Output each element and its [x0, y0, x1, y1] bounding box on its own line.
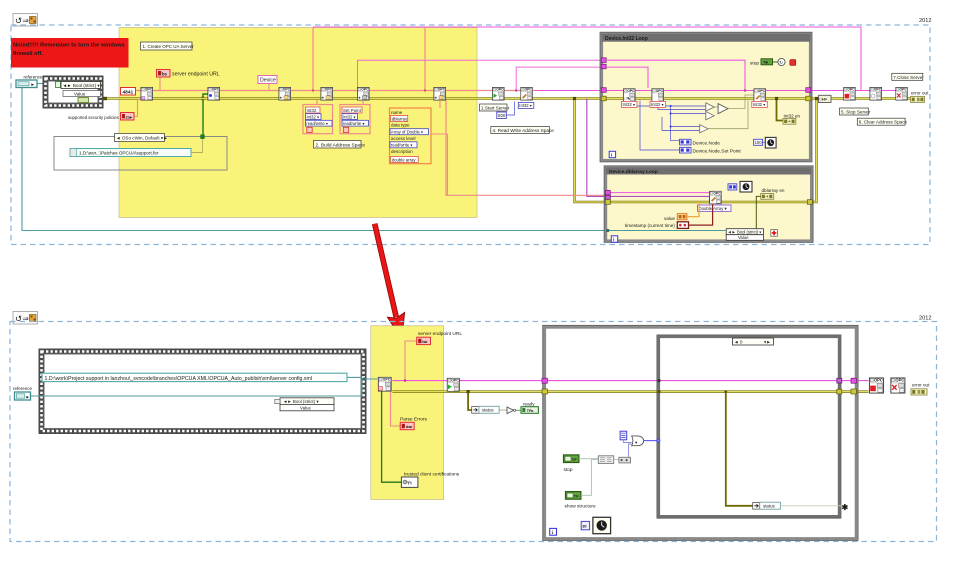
node R3 clear [896, 87, 908, 100]
note box red [11, 38, 129, 68]
bool strict property loop2 [726, 229, 763, 235]
loop i bottom [550, 528, 557, 535]
svg-text:dblarray: dblarray [392, 116, 408, 121]
svg-text:□H×: □H× [820, 97, 828, 102]
dropdown Int32 under U8 [518, 102, 534, 108]
svg-text:value: value [664, 216, 675, 221]
node R2 close [870, 87, 882, 100]
svg-text:i: i [552, 530, 553, 536]
label 7.Close Server [892, 73, 923, 80]
cluster C2 Set Point [340, 105, 370, 134]
svg-text:2012: 2012 [919, 316, 931, 322]
svg-text:Value: Value [300, 406, 311, 411]
svg-text:stop: stop [564, 467, 573, 473]
loop1 iteration i [609, 151, 615, 157]
cluster C1 int32 [303, 105, 333, 134]
status indicator inner [753, 503, 760, 510]
node M1 write dbl [710, 191, 722, 204]
constant 500 [497, 112, 507, 119]
svg-text:TF: TF [572, 457, 577, 462]
node RB2 close bottom [891, 378, 905, 393]
metronome bottom [581, 521, 589, 529]
svg-text:status: status [763, 504, 776, 509]
svg-text:30: 30 [582, 524, 587, 529]
svg-text:description: description [391, 149, 413, 154]
wire magenta top run [313, 27, 861, 91]
loop2 wires magenta+purple [607, 192, 710, 194]
yellow region top [119, 28, 477, 218]
gray box (config, bottom-left of yellow) [54, 137, 227, 171]
svg-text:reference: reference [13, 386, 33, 391]
node L1 [623, 89, 635, 102]
node B2 create server bottom [447, 378, 459, 391]
wire stop to circle [773, 61, 778, 63]
svg-text:access level: access level [391, 136, 416, 141]
svg-text:◄► Bool (strict) ▾: ◄► Bool (strict) ▾ [728, 230, 762, 235]
svg-text:i: i [611, 153, 612, 158]
frame top diagram dashed border [11, 25, 930, 245]
svg-text:1.D:\wor...\Patches OPCUA\supp: 1.D:\wor...\Patches OPCUA\support.fer [79, 151, 159, 156]
svg-text:server endpoint URL: server endpoint URL [418, 331, 462, 337]
stop control bottom [564, 455, 579, 463]
inner loop terminals [657, 379, 660, 382]
wire salmon cluster risers [317, 100, 440, 108]
loop2 olive [607, 201, 809, 204]
svg-text:Int32 ▾: Int32 ▾ [519, 103, 532, 108]
svg-text:Int32: Int32 [307, 108, 317, 113]
svg-text:ready: ready [523, 401, 535, 406]
junction dots olive main [573, 97, 576, 100]
svg-text:timestamp (current time): timestamp (current time) [625, 223, 675, 228]
wire teal bottom main [29, 379, 378, 396]
svg-text:Value: Value [74, 91, 86, 96]
not gate [499, 409, 507, 411]
svg-text:dblarray en: dblarray en [762, 188, 785, 193]
svg-text:supported security policies: supported security policies [68, 115, 119, 120]
stop sign red [790, 60, 796, 66]
path box server config [42, 373, 347, 381]
yellow region bottom [371, 326, 444, 500]
node R1 stop server [844, 87, 856, 100]
wire orange value->node [687, 203, 699, 217]
svg-text:reference: reference [24, 74, 44, 79]
wire pink main left (salmon) [135, 90, 535, 92]
comparator T1 [706, 103, 714, 111]
svg-text:500: 500 [498, 113, 506, 118]
svg-text:Int32 ▾: Int32 ▾ [651, 102, 664, 107]
loop1 interior wires magenta [604, 60, 808, 90]
svg-text:+: + [435, 96, 438, 101]
node L3 write [754, 89, 766, 102]
4841 constant [121, 88, 136, 96]
wire salmon parse errors [391, 391, 401, 426]
svg-text:Device.Node: Device.Node [693, 140, 721, 146]
svg-text:►: ► [26, 394, 30, 399]
wire olive status branch [468, 392, 472, 410]
junction dot seq-right [104, 97, 107, 100]
svg-text:i: i [613, 237, 614, 242]
svg-text:↻: ↻ [779, 60, 783, 65]
label 6. Clear Address Space [857, 118, 905, 125]
cluster C3 dblarray big [390, 108, 432, 164]
svg-text:data type: data type [391, 123, 410, 128]
toolbar bottom-left [13, 312, 38, 325]
svg-text:2. Build Address Space: 2. Build Address Space [316, 142, 366, 148]
svg-text:read/write ▾: read/write ▾ [391, 143, 413, 148]
svg-text:✱: ✱ [842, 503, 849, 512]
svg-text:name: name [391, 110, 403, 115]
wire salmon bigcluster link [431, 134, 448, 195]
svg-text:100: 100 [755, 140, 763, 145]
wire olive inner status branch [726, 392, 753, 506]
svg-text:Array of Double ▾: Array of Double ▾ [391, 130, 423, 135]
svg-text:Device.Node.Set Point: Device.Node.Set Point [693, 148, 742, 154]
green terminal on seq border [78, 98, 89, 103]
wire salmon risers to top run [313, 27, 425, 91]
value box (top seq) [63, 91, 101, 97]
svg-text:status: status [482, 408, 495, 413]
wire olive bottom main [392, 390, 868, 393]
outer while loop bottom [543, 325, 858, 540]
constant 100 + wait metronome loop1 [754, 139, 763, 145]
comparator T4 [700, 125, 708, 133]
svg-text:server endpoint URL: server endpoint URL [172, 72, 220, 78]
node B1 parse config [378, 377, 391, 391]
loop2 Device.dblarray Loop frame [604, 166, 813, 243]
svg-text:1. Create OPC UA Server: 1. Create OPC UA Server [143, 44, 195, 49]
svg-text:2s▸: 2s▸ [126, 114, 133, 119]
sequence frame (top) [43, 76, 103, 108]
svg-text:◄► Bool (strict) ▾: ◄► Bool (strict) ▾ [283, 399, 319, 404]
or gate [632, 436, 644, 446]
label 1.Start Server [480, 104, 508, 111]
loop1 interior olive [604, 97, 808, 100]
node L2 [652, 89, 664, 102]
svg-text:►: ► [31, 82, 35, 87]
svg-text:Int32 ▾: Int32 ▾ [623, 102, 636, 107]
svg-text:TF▸: TF▸ [527, 408, 535, 413]
selector 0 [732, 338, 773, 345]
bool strict property bottom seq [280, 398, 334, 405]
wire olive error main (top) [103, 97, 911, 100]
loop2 wait constant + metronome [728, 184, 737, 190]
svg-text:▾: ▾ [635, 440, 637, 445]
svg-text:Set Point: Set Point [343, 108, 362, 113]
node U2 config [208, 87, 220, 100]
svg-text:error out: error out [911, 91, 929, 96]
svg-text:Int32 en: Int32 en [784, 114, 801, 119]
sequence frame bottom [39, 349, 366, 434]
svg-text:Int32 ▾: Int32 ▾ [307, 114, 320, 119]
svg-text:↺: ↺ [15, 16, 22, 26]
svg-text:◄ 0: ◄ 0 [734, 340, 743, 345]
loop2 teal segment [607, 230, 726, 232]
svg-text:bs: bs [162, 71, 168, 76]
svg-text:7.Close Server: 7.Close Server [893, 75, 924, 80]
junction teal seq-right [363, 378, 366, 381]
svg-text:Device: Device [260, 78, 276, 84]
node U5 add item2 [357, 87, 369, 100]
svg-text:read/write ▾: read/write ▾ [343, 121, 365, 126]
node U4 add item [321, 87, 333, 100]
outer loop terminals [542, 378, 547, 383]
svg-text:Noted!!!!! Remember to turn th: Noted!!!!! Remember to turn the windows [13, 43, 125, 49]
svg-text:+: + [358, 96, 361, 101]
loop1 Device.Int32 Loop frame [600, 32, 812, 162]
label 5. Stop Server [840, 108, 869, 115]
wire magenta main right [535, 90, 897, 92]
node U8 read write [521, 87, 533, 100]
node U6 add array item [434, 87, 446, 100]
inner loop bottom [657, 335, 841, 518]
path box support.fer [70, 149, 191, 157]
svg-text:Parse Errors: Parse Errors [400, 416, 428, 422]
svg-text:TF: TF [574, 494, 579, 499]
svg-text:error out: error out [912, 382, 930, 387]
wire salmon aux y66 [516, 67, 648, 90]
loop condition circle [778, 58, 785, 65]
svg-text:2012: 2012 [919, 18, 931, 24]
unbundle blue icon [620, 431, 627, 440]
loop1 border terminals [601, 58, 606, 63]
status indicator left [472, 407, 479, 414]
svg-text:1.Start Server: 1.Start Server [481, 106, 510, 111]
loop1 comparator out wires [708, 95, 754, 129]
svg-text:Device.Int32 Loop: Device.Int32 Loop [605, 36, 648, 42]
svg-text:1.D:\work\Project support in l: 1.D:\work\Project support in lanzhou\_sv… [45, 376, 313, 382]
red annotation arrow [375, 224, 405, 340]
node RB1 stop server bottom [869, 378, 883, 393]
node U1 create server [141, 87, 153, 100]
svg-text:◄► Bool (strict) ▾: ◄► Bool (strict) ▾ [63, 83, 101, 88]
wire salmon node6 down to dblarray [446, 100, 605, 195]
svg-text:show structure: show structure [565, 503, 597, 509]
svg-text:T■: T■ [763, 60, 768, 65]
svg-text:◄ OSo cWin, Default ▾►: ◄ OSo cWin, Default ▾► [116, 136, 168, 141]
svg-text:5. Stop Server: 5. Stop Server [841, 110, 871, 115]
frame bottom diagram dashed border [10, 322, 937, 542]
wire olive path stub [191, 139, 203, 153]
wire green trusted certs [382, 391, 402, 482]
svg-text:double array: double array [392, 157, 417, 162]
equality icon pair [579, 458, 598, 460]
svg-text:▾►: ▾► [764, 340, 771, 345]
label 1. Create OPC UA Server [141, 42, 193, 50]
wire darkred timestamp->node [689, 204, 713, 225]
label 4. Read Write Address Space [491, 127, 550, 134]
comparator T2 [706, 112, 714, 120]
blue refs Device.Node [680, 139, 692, 145]
toolbar top-left [13, 14, 38, 27]
node R0 small util [819, 95, 831, 102]
wire olive dblarray loop right riser [810, 99, 817, 203]
loop2 iteration i [611, 236, 617, 242]
svg-text:6. Clear Address Space: 6. Clear Address Space [859, 120, 908, 125]
svg-text:firewall off.: firewall off. [13, 51, 43, 57]
comparator T3 big [718, 104, 728, 114]
node U3 add folder [279, 87, 291, 100]
node U7 start server [492, 87, 504, 100]
wire teal reference long [22, 84, 726, 231]
svg-text:ds▸: ds▸ [406, 424, 414, 429]
red cross icon [771, 230, 778, 237]
wire salmon aux y60 [358, 60, 605, 87]
svg-text:Value: Value [738, 235, 749, 240]
svg-text:Int32 ▾: Int32 ▾ [343, 114, 356, 119]
svg-text:trusted client certifications: trusted client certifications [404, 471, 460, 477]
wire magenta bottom main [392, 380, 868, 382]
wire olive branch down to dblarray loop (left) [575, 99, 607, 203]
svg-text:Device.dblarray Loop: Device.dblarray Loop [609, 169, 658, 175]
wire dark bool->en [756, 196, 760, 231]
dropdown Double Array [698, 205, 732, 211]
svg-text:⇒: ⇒ [23, 16, 30, 25]
svg-text:4841: 4841 [123, 90, 134, 96]
svg-text:+: + [280, 96, 283, 101]
Device label [258, 76, 277, 84]
wire purple down to dblarray [587, 99, 605, 197]
svg-text:stop: stop [750, 61, 759, 67]
svg-text:4. Read Write Address Space: 4. Read Write Address Space [493, 128, 555, 133]
enum OSo cWin Default [115, 134, 165, 142]
wire green enum vertical [203, 94, 210, 136]
wire salmon RJs riser [405, 341, 417, 381]
loop1 blue wires [631, 101, 706, 151]
svg-text:+: + [322, 96, 325, 101]
Rbs server endpoint URL indicator [159, 77, 161, 91]
supported security policies [134, 100, 142, 117]
svg-text:□✎: □✎ [625, 96, 632, 101]
label 2. Build Address Space [314, 141, 362, 149]
loop2 border terminals [605, 190, 610, 195]
junction dots pink main [312, 89, 314, 91]
svg-text:read/write ▾: read/write ▾ [306, 121, 328, 126]
bool strict dropdown (top seq) [56, 82, 61, 88]
olive branch int32 en [777, 99, 784, 121]
svg-text:Int32 ▾: Int32 ▾ [753, 102, 766, 107]
show structure control [566, 492, 581, 500]
